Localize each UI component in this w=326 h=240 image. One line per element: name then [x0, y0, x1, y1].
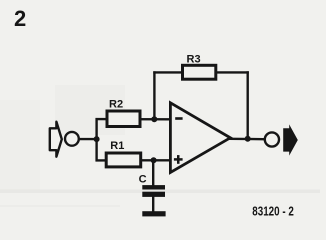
node non-inverting input junction — [151, 157, 157, 163]
op-amp inverting pin mark — [175, 117, 182, 120]
svg-text:2: 2 — [14, 6, 26, 31]
wire op-amp output — [229, 138, 272, 141]
node input junction — [94, 136, 100, 142]
op-amp U1 — [170, 103, 230, 173]
svg-text:R2: R2 — [109, 99, 123, 111]
wire feedback right vertical — [246, 71, 248, 139]
output arrow — [283, 124, 298, 155]
op-amp non-inverting pin mark — [174, 158, 183, 161]
capacitor C — [142, 185, 165, 189]
wire input split vertical — [95, 118, 97, 161]
output connector circle — [265, 132, 279, 146]
resistor R3 — [183, 65, 216, 79]
ground — [142, 211, 165, 216]
svg-text:R3: R3 — [187, 53, 201, 65]
resistor R2 — [107, 111, 140, 127]
wire feedback top horizontal — [153, 71, 249, 73]
svg-text:C: C — [139, 174, 147, 186]
svg-text:83120 - 2: 83120 - 2 — [252, 203, 293, 218]
wire capacitor to ground — [152, 197, 154, 213]
node output junction — [245, 136, 251, 142]
resistor R1 — [106, 153, 141, 167]
wire input to junction — [72, 138, 97, 140]
wire to R2 and inverting input — [96, 118, 171, 121]
wire to R1 and non-inverting input — [96, 159, 171, 161]
svg-text:R1: R1 — [110, 140, 124, 152]
node inverting input junction — [151, 116, 157, 122]
input connector arrow — [50, 122, 62, 157]
input connector circle — [65, 132, 79, 146]
wire capacitor top — [152, 160, 154, 186]
wire feedback left vertical — [153, 71, 155, 119]
